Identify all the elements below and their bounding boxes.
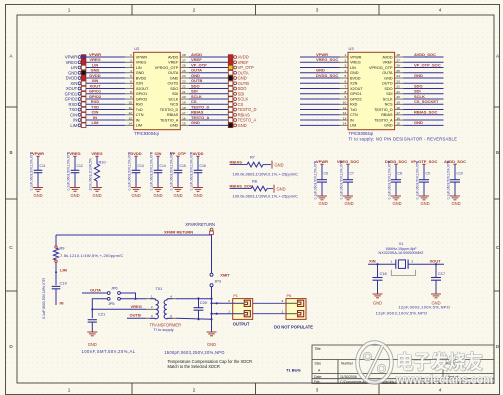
- wire to U3 pin 13: [300, 119, 340, 121]
- svg-text:GND: GND: [136, 71, 145, 75]
- svg-text:GND: GND: [68, 70, 77, 75]
- svg-text:23: 23: [182, 79, 186, 83]
- net label VREG and wire to transformer pin 2: [91, 304, 146, 311]
- port XIN / wire to U2 pin 6: [70, 78, 125, 86]
- svg-text:0.1uF,0603,50V,10%,X7R: 0.1uF,0603,50V,10%,X7R: [42, 278, 46, 319]
- wire to U3 pin 11: [300, 109, 340, 111]
- svg-text:OUTB: OUTB: [191, 78, 202, 83]
- svg-text:JP5: JP5: [108, 302, 115, 306]
- svg-text:XFMR/RETURN: XFMR/RETURN: [185, 222, 215, 227]
- svg-text:13: 13: [128, 116, 132, 120]
- svg-text:VPWR: VPWR: [136, 55, 148, 59]
- svg-text:GND: GND: [173, 193, 182, 198]
- port CS / wire to U2 pin 19: [189, 99, 244, 107]
- svg-text:GND: GND: [414, 120, 423, 125]
- svg-text:TI to supply: TI to supply: [154, 327, 174, 332]
- port AVDD / wire to U2 pin 28: [189, 52, 249, 60]
- svg-text:TESTO_D: TESTO_D: [238, 107, 257, 112]
- svg-text:16: 16: [182, 116, 186, 120]
- svg-text:C17: C17: [438, 271, 445, 276]
- svg-text:TESTO_A: TESTO_A: [191, 115, 209, 120]
- svg-text:0.1uF,0603,50V,10%,X7R: 0.1uF,0603,50V,10%,X7R: [447, 160, 451, 199]
- svg-text:TESTIO_D: TESTIO_D: [160, 108, 179, 112]
- watermark logo elecfans: [358, 343, 392, 383]
- svg-text:GND: GND: [191, 120, 200, 125]
- svg-text:C9: C9: [426, 171, 430, 175]
- svg-text:GND: GND: [131, 193, 140, 198]
- wire to U3 pin 17 net RBIAS_SOC: [403, 110, 443, 115]
- svg-text:2: 2: [130, 58, 132, 62]
- svg-text:20: 20: [182, 95, 186, 99]
- svg-text:0.1uF,0603,50V,10%,X7R: 0.1uF,0603,50V,10%,X7R: [340, 160, 344, 199]
- svg-text:3: 3: [316, 8, 319, 13]
- svg-text:GPIO2: GPIO2: [136, 97, 148, 101]
- svg-text:2: 2: [344, 58, 346, 62]
- resistor R7 on net RBIAS: [230, 155, 299, 177]
- svg-text:B: B: [496, 150, 499, 155]
- svg-text:C11: C11: [40, 164, 46, 168]
- svg-text:VREG: VREG: [69, 151, 80, 156]
- svg-text:Match to the Selected XDCR: Match to the Selected XDCR: [168, 364, 220, 369]
- wire to U3 pin 23: [403, 82, 443, 84]
- svg-text:0.1uF,0603,50V,10%,X7R: 0.1uF,0603,50V,10%,X7R: [314, 160, 318, 199]
- svg-text:GND: GND: [33, 193, 42, 198]
- svg-text:0.1uF,0603,50V,10%,X7R: 0.1uF,0603,50V,10%,X7R: [170, 151, 174, 190]
- svg-text:GND: GND: [277, 186, 286, 191]
- svg-text:GND: GND: [70, 193, 79, 198]
- port GPIO1 / wire to U2 pin 8: [65, 89, 126, 97]
- port SCLK / wire to U2 pin 20: [189, 94, 249, 102]
- svg-text:VREF: VREF: [238, 60, 249, 65]
- svg-text:U3: U3: [349, 46, 355, 51]
- svg-text:DO NOT POPULATE: DO NOT POPULATE: [274, 325, 313, 330]
- svg-text:GPIO2: GPIO2: [65, 97, 78, 102]
- svg-text:P6: P6: [287, 293, 292, 298]
- svg-text:GND: GND: [373, 301, 382, 306]
- svg-text:6: 6: [130, 79, 132, 83]
- svg-text:OUTA: OUTA: [382, 71, 393, 75]
- svg-text:AVDD: AVDD: [168, 55, 179, 59]
- wire to U3 pin 12: [300, 114, 340, 116]
- ground for C21: [87, 332, 97, 347]
- svg-text:SCLK: SCLK: [168, 97, 178, 101]
- svg-text:10: 10: [343, 100, 347, 104]
- port IN / wire to U2 pin 13: [73, 115, 125, 123]
- svg-text:CIN: CIN: [70, 112, 77, 117]
- svg-text:24: 24: [396, 74, 400, 78]
- capacitor C10 on net AVDD_SOC: [444, 159, 466, 206]
- svg-text:File:: File:: [314, 380, 320, 384]
- svg-text:SCLK: SCLK: [238, 97, 249, 102]
- wire to U3 pin 28 net AVDD_SOC: [403, 52, 443, 57]
- svg-text:BVDD: BVDD: [350, 76, 361, 80]
- svg-text:7: 7: [130, 85, 132, 89]
- wire to U3 pin 24 net GND: [403, 73, 443, 78]
- svg-text:0.1uF,0603,50V,10%,X7R: 0.1uF,0603,50V,10%,X7R: [388, 160, 392, 199]
- svg-text:VPWR: VPWR: [65, 55, 77, 60]
- svg-text:GND: GND: [92, 193, 101, 198]
- wire to P1 pin 1: [212, 313, 233, 315]
- svg-text:1: 1: [130, 53, 132, 57]
- svg-text:SDO: SDO: [384, 87, 392, 91]
- svg-text:VREG: VREG: [89, 57, 100, 62]
- capacitor C19: [52, 281, 67, 305]
- svg-text:GND: GND: [193, 193, 202, 198]
- svg-text:VPWR: VPWR: [350, 55, 362, 59]
- svg-text:18: 18: [182, 106, 186, 110]
- wire XIN: [368, 263, 396, 265]
- wire to U3 pin 21 net SDI: [403, 89, 443, 94]
- svg-text:GND: GND: [191, 73, 200, 78]
- svg-text:12: 12: [343, 111, 347, 115]
- svg-text:LIN: LIN: [350, 66, 356, 70]
- svg-text:GND: GND: [91, 68, 100, 73]
- svg-text:XIN: XIN: [70, 81, 77, 86]
- svg-text:T1 BUG: T1 BUG: [286, 368, 301, 373]
- port DVDD / wire to U2 pin 5: [66, 73, 126, 81]
- svg-text:X1: X1: [399, 241, 404, 246]
- svg-text:RBIAS: RBIAS: [238, 112, 251, 117]
- svg-text:SDO: SDO: [170, 87, 178, 91]
- svg-text:GND: GND: [153, 193, 162, 198]
- svg-text:B: B: [9, 150, 12, 155]
- svg-text:CIN: CIN: [92, 110, 99, 115]
- svg-text:TxD: TxD: [136, 108, 143, 112]
- svg-text:VPROG_OTP: VPROG_OTP: [369, 66, 393, 70]
- svg-text:2: 2: [193, 8, 196, 13]
- svg-text:3: 3: [130, 64, 132, 68]
- IC U2 pins: [125, 57, 189, 125]
- svg-text:LIM: LIM: [70, 123, 77, 128]
- port SDO / wire to U2 pin 22: [189, 83, 247, 91]
- svg-text:JP3: JP3: [214, 279, 221, 283]
- svg-text:GND: GND: [350, 71, 359, 75]
- svg-text:NX3225SA-16.000000MHZ: NX3225SA-16.000000MHZ: [379, 251, 425, 255]
- svg-text:21: 21: [396, 90, 400, 94]
- connector P1: [228, 293, 253, 327]
- svg-text:2: 2: [282, 299, 284, 303]
- svg-text:GND: GND: [414, 73, 423, 78]
- wire to U3 pin 27: [403, 61, 443, 63]
- wire to U3 pin 10: [300, 103, 340, 105]
- svg-text:VREG: VREG: [91, 151, 102, 156]
- title block: [312, 345, 494, 384]
- capacitor C21: [88, 312, 105, 332]
- wire to U3 pin 9: [300, 98, 340, 100]
- capacitor C16 on net AVDD: [190, 151, 206, 198]
- svg-text:1: 1: [344, 53, 346, 57]
- svg-text:9: 9: [130, 95, 132, 99]
- capacitor C12 on net VREG: [67, 151, 83, 198]
- svg-text:100.0k,0603,1/10W,0.1%,+-25ppm: 100.0k,0603,1/10W,0.1%,+-25ppm/C: [233, 193, 299, 198]
- wire to U3 pin 8: [300, 93, 340, 95]
- svg-text:LIN: LIN: [71, 65, 77, 70]
- svg-text:C10: C10: [457, 171, 463, 175]
- svg-text:BVDD: BVDD: [136, 76, 147, 80]
- watermark text: [395, 352, 494, 387]
- svg-text:GND: GND: [275, 162, 284, 167]
- svg-text:IN: IN: [93, 115, 97, 120]
- svg-text:LIM: LIM: [136, 124, 142, 128]
- svg-text:AVDD: AVDD: [382, 55, 393, 59]
- svg-text:TPIC93004qi: TPIC93004qi: [134, 131, 159, 136]
- svg-text:27: 27: [182, 58, 186, 62]
- port OUTA / wire to U2 pin 25: [189, 68, 249, 76]
- svg-text:SCLK: SCLK: [414, 94, 425, 99]
- net label OUTA and wire: [82, 287, 107, 293]
- svg-text:X2N: X2N: [136, 82, 144, 86]
- svg-text:CS_SOCKET: CS_SOCKET: [414, 99, 439, 104]
- svg-text:X2OUT: X2OUT: [350, 87, 363, 91]
- svg-text:SDO: SDO: [191, 83, 200, 88]
- svg-text:0.1uF,0603,50V,10%,X7R: 0.1uF,0603,50V,10%,X7R: [67, 151, 71, 190]
- svg-text:GND: GND: [344, 201, 353, 206]
- wire to U3 pin 15 net GND: [403, 120, 443, 125]
- port RXD / wire to U2 pin 10: [69, 99, 126, 107]
- capacitor C11 on net VPWR: [30, 151, 46, 198]
- svg-text:CTN: CTN: [136, 113, 144, 117]
- svg-text:GND: GND: [170, 76, 179, 80]
- svg-text:6: 6: [344, 79, 346, 83]
- net label OUTB and wire to transformer pin 3: [127, 312, 146, 318]
- wire to U3 pin 6: [300, 82, 340, 84]
- port VP_OTP / wire to U2 pin 26: [189, 62, 254, 70]
- svg-text:19: 19: [396, 100, 400, 104]
- capacitor C8 on net DVDD_SOC: [385, 159, 407, 206]
- svg-text:17: 17: [396, 111, 400, 115]
- svg-text:SCLK: SCLK: [383, 97, 393, 101]
- svg-text:14: 14: [128, 122, 132, 126]
- svg-text:VREG: VREG: [66, 60, 78, 65]
- svg-text:14: 14: [343, 122, 347, 126]
- svg-text:23: 23: [396, 79, 400, 83]
- svg-text:2: 2: [193, 388, 196, 393]
- wire to U3 pin 2 net VREG_SOC: [300, 57, 340, 62]
- wire to U3 pin 14: [300, 124, 340, 126]
- svg-text:GND: GND: [88, 342, 97, 347]
- svg-text:11/30/2006: 11/30/2006: [340, 375, 357, 379]
- capacitor C18: [373, 263, 387, 293]
- svg-text:LIN: LIN: [92, 62, 99, 67]
- svg-text:Title: Title: [315, 347, 321, 351]
- wire bus below JP3 to ground: [211, 287, 213, 332]
- capacitor C13 on net DVDD: [128, 151, 144, 198]
- svg-text:18: 18: [396, 106, 400, 110]
- svg-text:VREG: VREG: [136, 61, 147, 65]
- svg-text:OUTB: OUTB: [238, 81, 250, 86]
- svg-text:SDI: SDI: [386, 92, 392, 96]
- svg-text:22: 22: [396, 85, 400, 89]
- svg-text:TESTIO_A: TESTIO_A: [374, 118, 393, 122]
- svg-text:NCS: NCS: [170, 103, 178, 107]
- port TXD / wire to U2 pin 11: [69, 104, 125, 112]
- svg-text:27: 27: [396, 58, 400, 62]
- svg-text:1: 1: [228, 310, 230, 314]
- svg-text:IN: IN: [136, 118, 140, 122]
- svg-text:4: 4: [439, 8, 442, 13]
- svg-text:12pF,0603,100V,5%,NPO: 12pF,0603,100V,5%,NPO: [376, 310, 428, 315]
- svg-text:GPIO1: GPIO1: [350, 92, 362, 96]
- svg-text:100.0k,0603,1/10W,0.1%,+-25ppm: 100.0k,0603,1/10W,0.1%,+-25ppm/C: [233, 171, 299, 176]
- port VREG / wire to U2 pin 2: [66, 57, 126, 65]
- svg-text:CS: CS: [191, 99, 197, 104]
- transformer T01: [146, 286, 181, 332]
- svg-text:21: 21: [182, 90, 186, 94]
- svg-text:VPROG_OTP: VPROG_OTP: [155, 66, 179, 70]
- port RBIAS / wire to U2 pin 17: [189, 110, 250, 118]
- wire JP5 left leg down: [92, 299, 107, 319]
- svg-text:VREG: VREG: [350, 61, 361, 65]
- svg-text:C16: C16: [200, 164, 206, 168]
- svg-text:RBIAS_SOC: RBIAS_SOC: [230, 184, 253, 189]
- svg-text:GND: GND: [384, 124, 393, 128]
- wire to U3 pin 25: [403, 72, 443, 74]
- wire to U3 pin 26 net VP_OTP_SOC: [403, 62, 443, 67]
- capacitor C6 on net VPWR: [314, 159, 328, 206]
- svg-text:0.1uF,0603,50V,10%,X7R: 0.1uF,0603,50V,10%,X7R: [128, 151, 132, 190]
- svg-text:TXD: TXD: [69, 107, 77, 112]
- svg-text:25: 25: [182, 69, 186, 73]
- wire to U3 pin 19 net CS_SOCKET: [403, 99, 443, 104]
- svg-text:Number: Number: [341, 362, 354, 366]
- capacitor C17: [431, 263, 445, 293]
- svg-text:GPIO1: GPIO1: [89, 89, 102, 94]
- svg-text:OUTA: OUTA: [90, 287, 101, 292]
- svg-text:2: 2: [228, 299, 230, 303]
- svg-text:IN: IN: [350, 118, 354, 122]
- svg-text:JP6: JP6: [111, 287, 118, 291]
- wire secondary top rail: [176, 298, 212, 300]
- svg-text:SCLK: SCLK: [191, 94, 202, 99]
- svg-text:AVDD: AVDD: [238, 55, 249, 60]
- wires P1 to P6: [253, 302, 286, 304]
- svg-text:TESTIO_A: TESTIO_A: [160, 118, 179, 122]
- svg-text:AVDD: AVDD: [192, 151, 203, 156]
- svg-text:RBIAS: RBIAS: [191, 110, 204, 115]
- svg-text:TI to supply; NO PIN DESIGNATO: TI to supply; NO PIN DESIGNATOR - REVERS…: [349, 137, 458, 142]
- svg-text:26: 26: [182, 64, 186, 68]
- svg-text:22: 22: [182, 85, 186, 89]
- port GND / wire to U2 pin 15: [189, 120, 247, 128]
- jumper JP6: [107, 287, 120, 295]
- svg-text:8: 8: [344, 90, 346, 94]
- IC U3 body: [348, 52, 395, 129]
- svg-text:DVDD: DVDD: [66, 76, 78, 81]
- wire to U3 pin 20 net SCLK: [403, 94, 443, 99]
- svg-text:TPIC93004qi: TPIC93004qi: [349, 131, 374, 136]
- svg-text:GPIO1: GPIO1: [65, 91, 78, 96]
- port GPIO2 / wire to U2 pin 9: [65, 94, 126, 102]
- svg-text:GPIO2: GPIO2: [89, 94, 102, 99]
- port CIN / wire to U2 pin 12: [70, 110, 125, 118]
- svg-text:XOUT: XOUT: [430, 258, 442, 263]
- svg-text:OUTA: OUTA: [238, 70, 249, 75]
- crystal X1: [379, 241, 425, 275]
- port GND / wire to U2 pin 4: [68, 68, 125, 76]
- wire to U3 pin 7: [300, 88, 340, 90]
- svg-text:LIM: LIM: [60, 267, 68, 272]
- ground for C17: [431, 294, 441, 306]
- svg-text:19: 19: [182, 100, 186, 104]
- svg-text:0.1uF,0603,50V,10%,X7R: 0.1uF,0603,50V,10%,X7R: [30, 151, 34, 190]
- svg-text:RBIAS: RBIAS: [381, 113, 393, 117]
- svg-text:5: 5: [130, 74, 132, 78]
- svg-text:25: 25: [396, 69, 400, 73]
- svg-text:CS: CS: [238, 102, 244, 107]
- svg-text:VREF: VREF: [382, 61, 393, 65]
- svg-text:26: 26: [396, 64, 400, 68]
- port SDI / wire to U2 pin 21: [189, 89, 245, 97]
- svg-text:TxD: TxD: [350, 108, 357, 112]
- wire to P1 pin 2: [212, 302, 233, 304]
- svg-text:P1: P1: [233, 293, 238, 298]
- capacitor C15 on net VP_OTP: [170, 151, 187, 198]
- port VREF / wire to U2 pin 27: [189, 57, 249, 65]
- svg-text:www.elecfans.com: www.elecfans.com: [395, 375, 493, 387]
- svg-text:TESTO_D: TESTO_D: [191, 104, 209, 109]
- svg-text:C18: C18: [380, 271, 387, 276]
- svg-text:Size: Size: [315, 362, 322, 366]
- svg-text:X2OUT: X2OUT: [136, 87, 149, 91]
- svg-text:SDI: SDI: [191, 89, 198, 94]
- svg-text:0.1uF,0603,50V,10%,X7R: 0.1uF,0603,50V,10%,X7R: [416, 160, 420, 199]
- svg-text:1500pF,0603,250V,20%,NPO: 1500pF,0603,250V,20%,NPO: [164, 350, 225, 355]
- svg-text:RBIAS_SOC: RBIAS_SOC: [414, 110, 437, 115]
- port XFMR/RETURN: [185, 222, 215, 234]
- svg-text:VPWR: VPWR: [89, 52, 101, 57]
- svg-text:5: 5: [344, 74, 346, 78]
- svg-text:AVDD: AVDD: [191, 52, 202, 57]
- svg-text:7.5k,1210,1/4W,5%,+-200ppm/C: 7.5k,1210,1/4W,5%,+-200ppm/C: [60, 253, 124, 258]
- port OUTB / wire to U2 pin 23: [189, 78, 249, 86]
- svg-text:RXD: RXD: [91, 99, 100, 104]
- svg-text:C19: C19: [60, 281, 67, 286]
- capacitor C14 on net CIN: [150, 151, 166, 198]
- svg-text:RxD: RxD: [350, 103, 358, 107]
- svg-text:AVDD_SOC: AVDD_SOC: [414, 52, 436, 57]
- svg-text:GND: GND: [451, 201, 460, 206]
- svg-text:GND: GND: [170, 124, 179, 128]
- wire to U3 pin 16: [403, 119, 443, 121]
- svg-text:OUTA: OUTA: [191, 68, 202, 73]
- svg-text:12: 12: [128, 111, 132, 115]
- ground for C18: [373, 294, 383, 306]
- svg-text:16: 16: [396, 116, 400, 120]
- svg-text:GND: GND: [207, 342, 216, 347]
- svg-text:12pF,0603,100V,5%,NPO: 12pF,0603,100V,5%,NPO: [398, 305, 450, 310]
- svg-text:T01: T01: [156, 286, 163, 291]
- svg-text:C15: C15: [180, 164, 186, 168]
- port LIM / wire to U2 pin 14: [70, 120, 125, 128]
- svg-text:GND: GND: [318, 201, 327, 206]
- svg-text:NCS: NCS: [385, 103, 393, 107]
- svg-text:11: 11: [343, 106, 346, 110]
- capacitor C7 on net VREG_SOC: [337, 159, 359, 206]
- jumper JP3: [210, 272, 230, 286]
- svg-text:XFMR RETURN: XFMR RETURN: [164, 230, 193, 235]
- svg-text:DVDD: DVDD: [89, 73, 100, 78]
- svg-text:0.1uF,0603,50V,10%,X7R: 0.1uF,0603,50V,10%,X7R: [190, 151, 194, 190]
- svg-text:SDI: SDI: [414, 89, 421, 94]
- wire XOUT: [408, 263, 444, 265]
- svg-text:100nF,SMT,50V,20%,AL: 100nF,SMT,50V,20%,AL: [82, 349, 136, 354]
- svg-text:CIN: CIN: [155, 151, 162, 156]
- wire secondary bottom rail: [176, 317, 212, 320]
- svg-text:GND: GND: [238, 123, 247, 128]
- svg-text:15: 15: [396, 122, 400, 126]
- svg-text:10: 10: [128, 100, 132, 104]
- port LIN / wire to U2 pin 3: [71, 62, 125, 70]
